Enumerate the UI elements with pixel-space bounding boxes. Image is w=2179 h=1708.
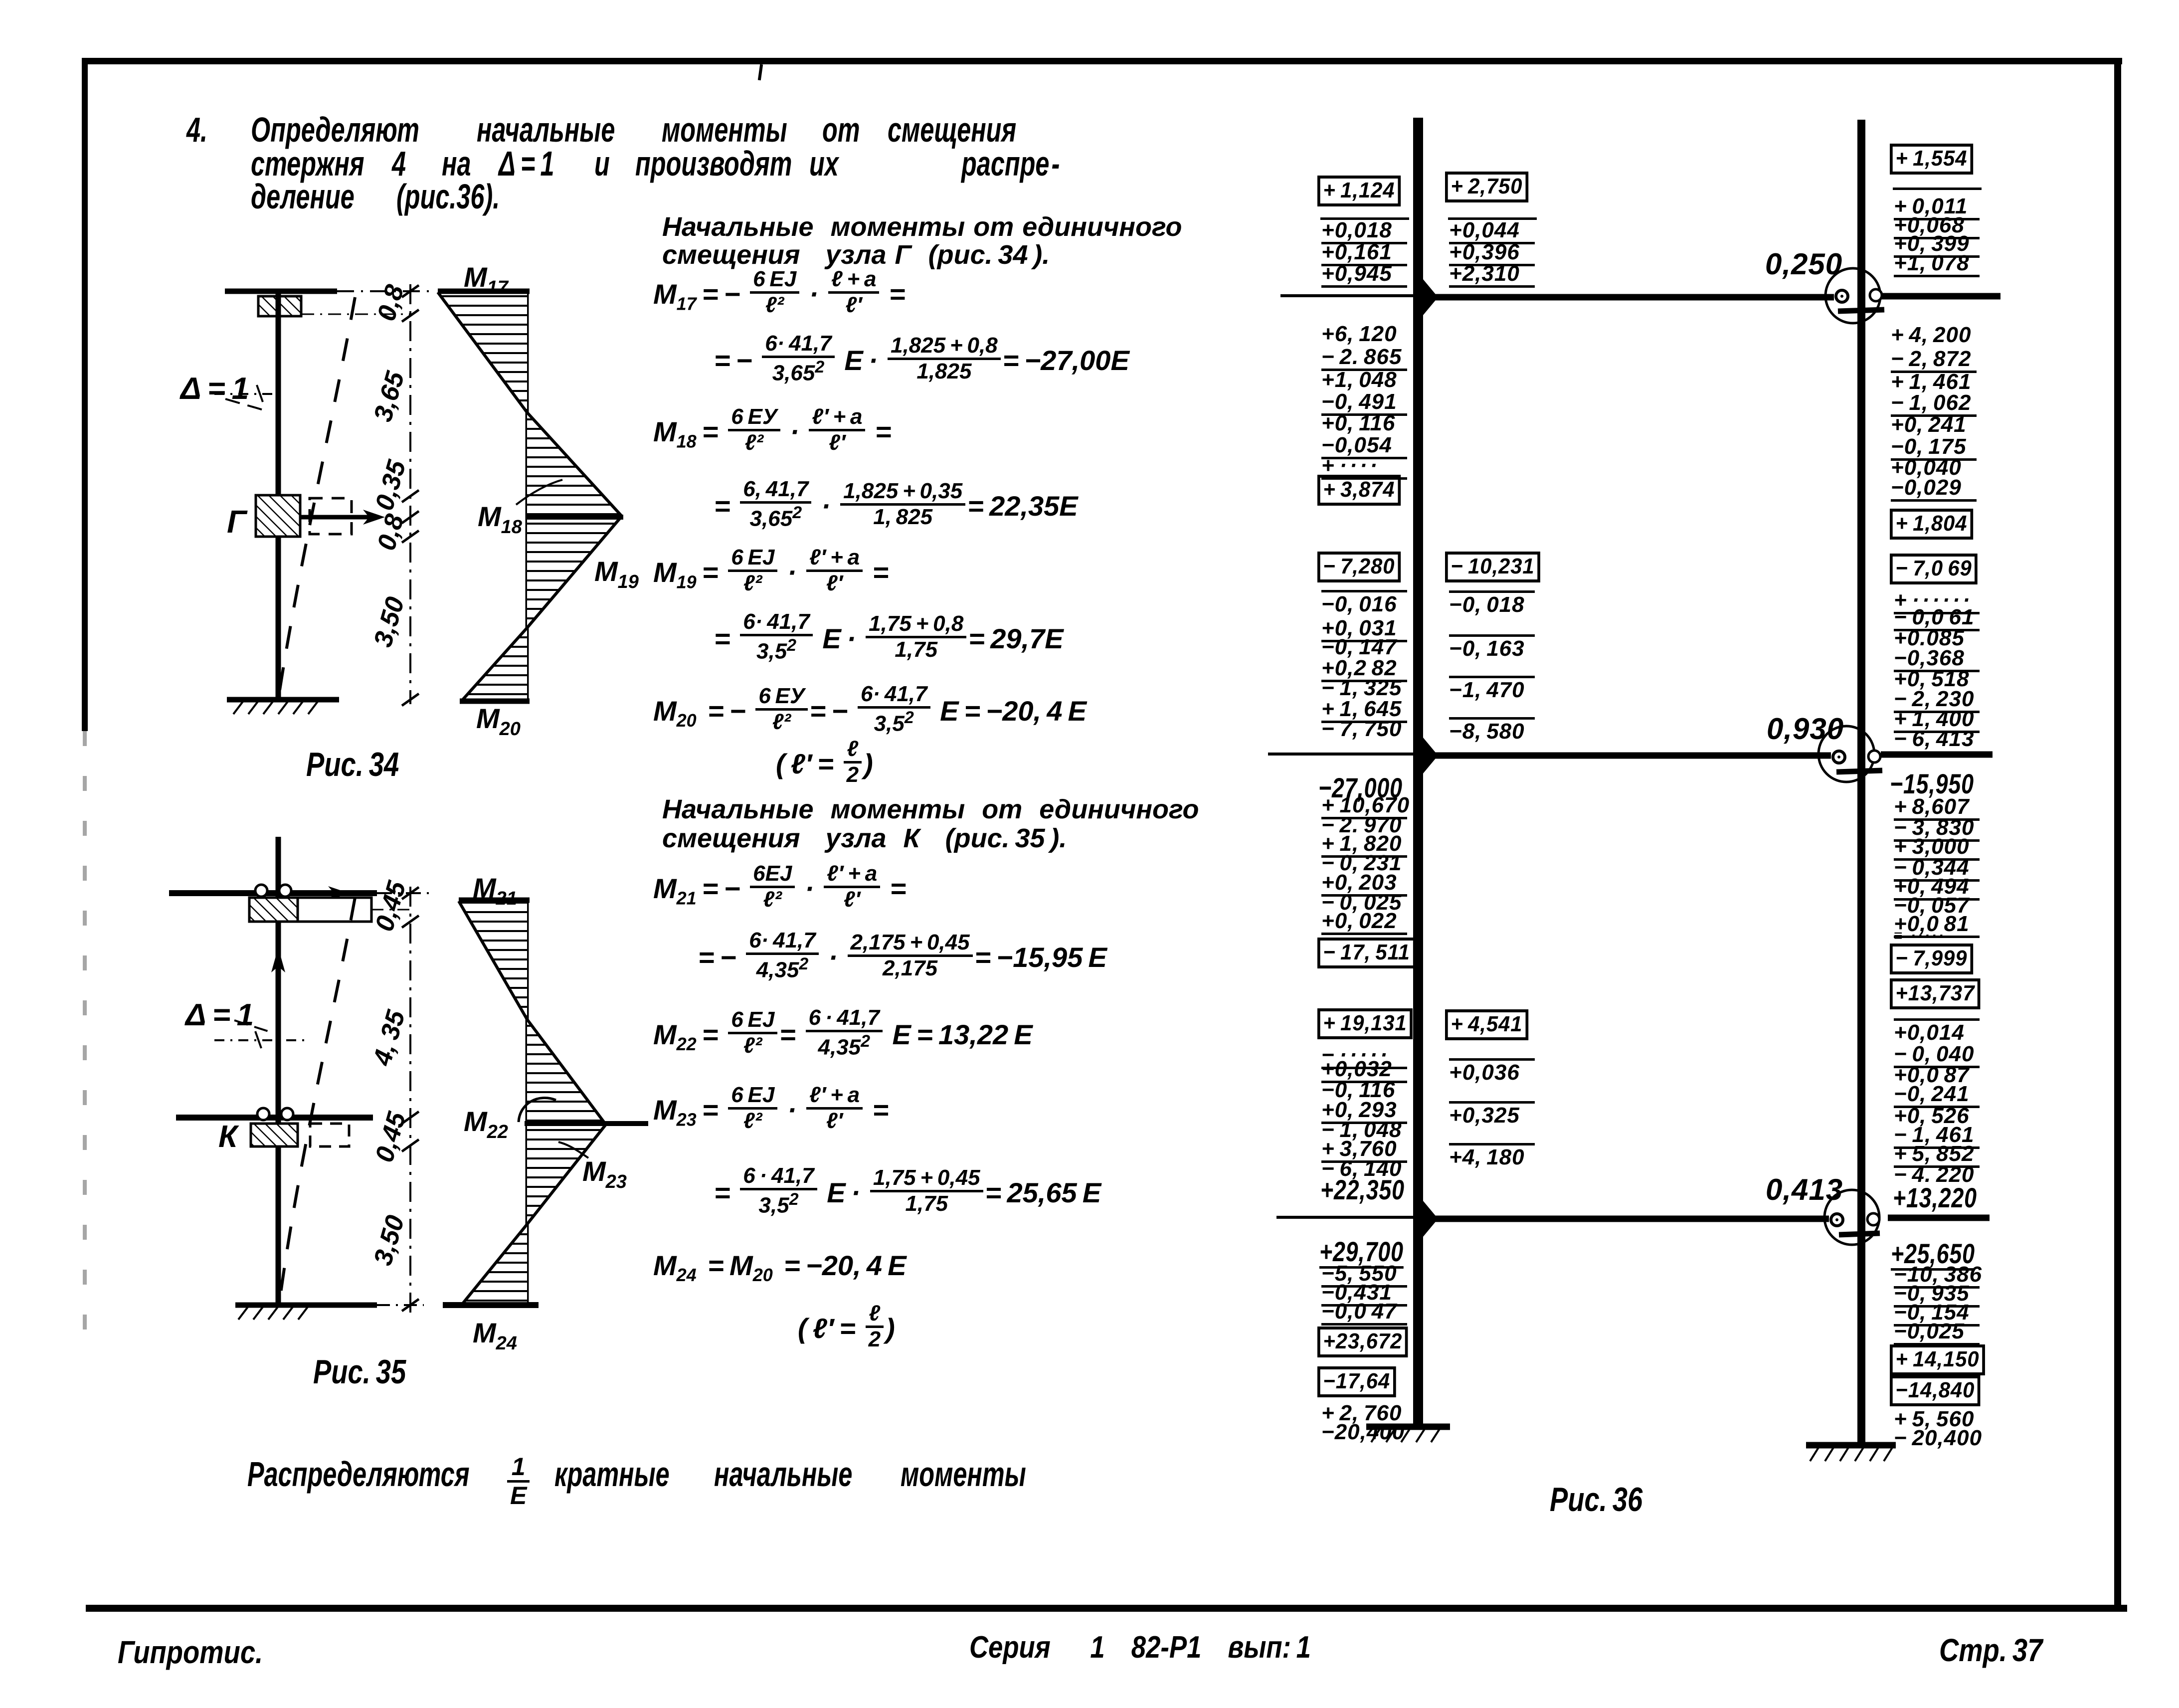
formula M19 value row <box>714 615 1064 667</box>
svg-text:Δ = 1: Δ = 1 <box>180 372 249 406</box>
tick below top border <box>758 64 763 81</box>
svg-text:3,50: 3,50 <box>368 1212 410 1269</box>
dimension line (dash-dot) with ticks <box>402 284 419 706</box>
svg-text:M20: M20 <box>476 703 521 740</box>
dashed box right of node <box>310 498 352 534</box>
moment triangle M24 (bottom) <box>443 1224 539 1305</box>
svg-text:Δ = 1: Δ = 1 <box>184 998 254 1032</box>
joint 3: circle and pins <box>1824 1190 1880 1245</box>
joint 2: circle and pins <box>1818 726 1882 782</box>
formula M23 value row <box>714 1169 1101 1221</box>
header line 3 <box>251 177 355 216</box>
stack H: right column mid <box>1890 554 1978 584</box>
formula M20 <box>653 687 1087 739</box>
stack L: left column below beam3 <box>1319 1238 1404 1269</box>
top support beam line <box>225 289 429 294</box>
svg-text:M18: M18 <box>478 501 523 538</box>
stack B: above beam1, right of left column <box>1445 172 1528 202</box>
top beam line <box>169 886 429 900</box>
unit force arrow at node <box>301 510 385 525</box>
beam 3 main span <box>1418 1216 1829 1222</box>
caption Рис. 35 <box>313 1352 406 1391</box>
distribution factor 0,250 <box>1765 249 1842 279</box>
svg-text:К: К <box>218 1120 239 1154</box>
node K block hatched <box>251 1124 298 1146</box>
stack D: left column below beam1 <box>1321 323 1407 345</box>
formula M21 value row <box>698 934 1107 985</box>
left column <box>1413 118 1423 1427</box>
caption Рис. 34 <box>306 745 399 784</box>
svg-text:0,8: 0,8 <box>372 282 410 325</box>
cross tick on column <box>214 1031 309 1048</box>
deflection dashed curve <box>279 297 355 693</box>
page frame right border <box>2114 58 2121 1610</box>
formula M23 <box>653 1088 889 1137</box>
moment triangle M17 (top) <box>438 291 530 412</box>
beam 2 main span <box>1418 753 1831 759</box>
stack E: right column below beam1 <box>1891 324 1977 346</box>
stack C: right column above beam1 <box>1890 144 1973 175</box>
moment triangle M20 (bottom) <box>460 628 530 701</box>
page frame top border <box>82 58 2122 64</box>
label M23 + leader <box>558 1142 627 1192</box>
beam 2 right stub <box>1881 752 1993 758</box>
beam 2 left stub <box>1268 753 1418 756</box>
column (stержень 4) <box>276 291 281 700</box>
note (l'=l/2) <box>798 1307 895 1355</box>
svg-text:M21: M21 <box>473 872 517 909</box>
delta leader dashes <box>225 399 269 412</box>
stack I: left column below beam2 <box>1318 774 1403 802</box>
svg-text:3,65: 3,65 <box>368 368 410 425</box>
beam 1 junction wedge <box>1423 279 1438 315</box>
joint 1: circle and pins <box>1825 268 1884 323</box>
heading: Начальные моменты от единичного смещения узла К (рис.35). <box>662 794 1199 825</box>
svg-text:M23: M23 <box>582 1155 627 1192</box>
svg-text:0,45: 0,45 <box>370 1109 412 1165</box>
beam 3 left stub <box>1276 1216 1418 1219</box>
svg-text:M24: M24 <box>473 1317 517 1354</box>
stack F: left column mid, left side <box>1317 552 1401 582</box>
right column <box>1857 120 1865 1446</box>
header line 2 words <box>251 144 364 184</box>
ground line <box>227 700 339 714</box>
column top arrow <box>271 948 285 972</box>
bottom center note: Распределяются 1/E кратные начальные моменты <box>247 1454 470 1494</box>
left ground <box>1366 1427 1450 1442</box>
beam 2 junction wedge <box>1423 738 1438 773</box>
dashed box right of K <box>310 1124 349 1146</box>
formula M24 <box>653 1249 907 1286</box>
moment diagram baseline <box>526 291 529 701</box>
svg-text:Г: Г <box>227 504 248 540</box>
label M18 + leader <box>478 480 562 538</box>
middle beam line <box>176 1115 373 1121</box>
moment diagram baseline <box>526 900 529 1305</box>
beam 3 right stub <box>1888 1215 1990 1221</box>
beam 1 right stub <box>1881 293 2000 300</box>
distribution factor 0,930 <box>1767 714 1844 744</box>
footer Стр 37 <box>1939 1632 2042 1669</box>
distribution factor 0,413 <box>1766 1175 1843 1205</box>
svg-text:3,50: 3,50 <box>368 594 410 650</box>
moment diamond M22/M23 <box>519 1019 648 1224</box>
dimension line (dash-dot) with ticks <box>402 887 419 1317</box>
stack A: left column above beam1, left side <box>1317 176 1401 206</box>
rollers top <box>255 885 291 897</box>
beam 1 left stub <box>1280 294 1418 297</box>
stack K: mid, right of left column above beam3 <box>1445 1009 1528 1040</box>
delta leader dashes <box>234 1020 271 1032</box>
formula M18 <box>653 410 892 458</box>
ground line <box>235 1305 424 1320</box>
formula M21 <box>653 867 906 915</box>
header item number 4. <box>186 110 207 150</box>
note (l'=l/2) <box>776 742 873 790</box>
cross tick on column <box>214 385 273 402</box>
formula M22 <box>653 1011 1033 1063</box>
svg-text:M17: M17 <box>464 261 509 298</box>
footer rule <box>86 1605 2127 1612</box>
svg-text:0,35: 0,35 <box>370 457 412 514</box>
formula M19 <box>653 551 889 599</box>
moment diamond M18/M19 <box>527 412 623 628</box>
beam 3 junction wedge <box>1423 1201 1438 1237</box>
stack O: right column below beam3 <box>1891 1240 1975 1271</box>
top support hatched block <box>258 296 413 316</box>
deflection dashed curve <box>280 898 355 1297</box>
dimension labels (rotated) <box>367 878 412 1269</box>
top support block (hatched + outline extension) <box>249 898 413 922</box>
svg-text:M22: M22 <box>464 1106 508 1142</box>
heading: Начальные моменты от единичного смещения узла Г (рис.34). <box>662 211 1182 242</box>
stack M: right column below beam2 <box>1890 770 1974 798</box>
footer Гипротис. <box>118 1634 263 1671</box>
node Г hatched block <box>256 495 300 537</box>
formula M18 value row <box>714 482 1078 534</box>
page frame left border <box>82 58 88 731</box>
svg-text:M19: M19 <box>594 556 639 592</box>
formula M17 <box>653 272 906 321</box>
rollers middle <box>257 1108 293 1120</box>
footer Серия <box>969 1630 1311 1665</box>
column <box>276 837 281 1305</box>
beam 1 main span <box>1418 294 1834 301</box>
formula M17 value row <box>714 337 1129 388</box>
caption Рис. 36 <box>1550 1480 1642 1519</box>
dimension labels (rotated) <box>368 282 412 650</box>
stack G: mid, right of left column <box>1445 552 1540 582</box>
stack N: right column above beam3 <box>1894 1018 1980 1044</box>
moment triangle M21 (top) <box>459 900 530 1019</box>
svg-text:4, 35: 4, 35 <box>367 1007 411 1069</box>
header line 1 words <box>251 110 419 150</box>
right ground <box>1806 1445 1896 1461</box>
stack J: left column above beam3 <box>1317 1008 1413 1039</box>
